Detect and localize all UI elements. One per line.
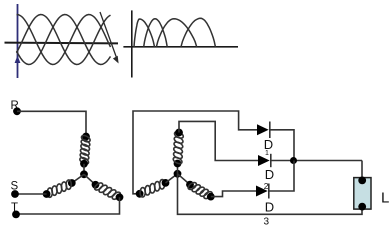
wire S terminal	[15, 193, 47, 195]
node R terminal	[13, 107, 21, 115]
wire center to S arm	[72, 174, 84, 183]
wire bus to load top	[361, 161, 363, 180]
wire secondary phase2: top coil to diode D2 anode	[179, 121, 258, 160]
sine wave phase 2	[17, 15, 111, 65]
svg-text:D: D	[265, 200, 274, 215]
node rectifier bus junction	[290, 157, 297, 164]
wire R to primary coil top	[17, 111, 86, 136]
node secondary right arm inner	[186, 181, 194, 189]
wire D1 cathode to bus	[270, 130, 294, 161]
right chart vertical axis	[131, 10, 133, 77]
secondary winding top (vertical coil)	[174, 131, 185, 140]
node load bottom	[358, 203, 366, 211]
node secondary left coil outer	[136, 190, 144, 198]
wire coil bottom to star center	[83, 164, 85, 175]
wire D2 cathode to load top	[271, 160, 362, 162]
wire center to T arm	[84, 174, 96, 185]
node S terminal	[11, 190, 19, 198]
node primary coil bottom	[80, 160, 88, 168]
wire secondary coil bottom to center	[177, 164, 179, 174]
node T arm outer	[116, 193, 124, 201]
node secondary star center	[174, 170, 182, 178]
left chart blue vertical axis	[15, 4, 21, 78]
wire center to right arm	[178, 174, 191, 185]
wire D3 cathode to bus	[269, 161, 294, 192]
load L (rectangle)	[354, 178, 371, 210]
primary winding R (vertical coil)	[80, 134, 91, 143]
svg-text:1: 1	[265, 150, 269, 157]
node load top	[358, 177, 366, 185]
diode D3	[256, 184, 269, 199]
svg-text:L: L	[381, 189, 389, 206]
svg-text:S: S	[11, 180, 19, 192]
svg-text:3: 3	[264, 217, 270, 228]
node T terminal	[12, 211, 20, 219]
svg-text:D: D	[265, 167, 274, 182]
node S arm inner	[68, 179, 76, 187]
node T arm inner	[92, 181, 100, 189]
sine wave phase 1	[17, 15, 111, 65]
sine wave phase 3	[17, 15, 111, 65]
node secondary coil bottom	[174, 160, 182, 168]
rectified hump 1	[134, 19, 155, 47]
wire secondary neutral to load bottom	[178, 174, 363, 215]
node primary coil top	[82, 133, 90, 141]
node secondary right coil outer	[207, 193, 215, 201]
wire left arm to secondary center	[166, 174, 178, 183]
rectified hump 4	[181, 18, 215, 47]
node primary star center	[80, 170, 88, 178]
secondary winding left (diagonal coil)	[159, 180, 164, 190]
wire secondary phase3 to diode D3 anode	[211, 191, 256, 197]
node secondary left arm inner	[162, 179, 170, 187]
wire T return	[16, 197, 120, 214]
node S arm outer	[43, 190, 51, 198]
rectified hump 3	[156, 19, 196, 47]
right chart horizontal axis	[123, 46, 238, 48]
primary winding S (diagonal coil)	[66, 180, 71, 189]
secondary winding right (diagonal coil)	[187, 181, 198, 191]
node secondary coil top	[175, 129, 183, 137]
wire secondary phase1: left coil to diode D1 anode	[133, 111, 257, 194]
svg-text:T: T	[11, 202, 18, 214]
rectified hump 2	[144, 19, 168, 47]
diagonal annotation arrow	[100, 12, 119, 64]
primary winding T (diagonal coil)	[93, 182, 104, 192]
left chart horizontal axis	[5, 42, 119, 45]
diode D1	[257, 122, 270, 139]
diode D2	[258, 154, 271, 167]
